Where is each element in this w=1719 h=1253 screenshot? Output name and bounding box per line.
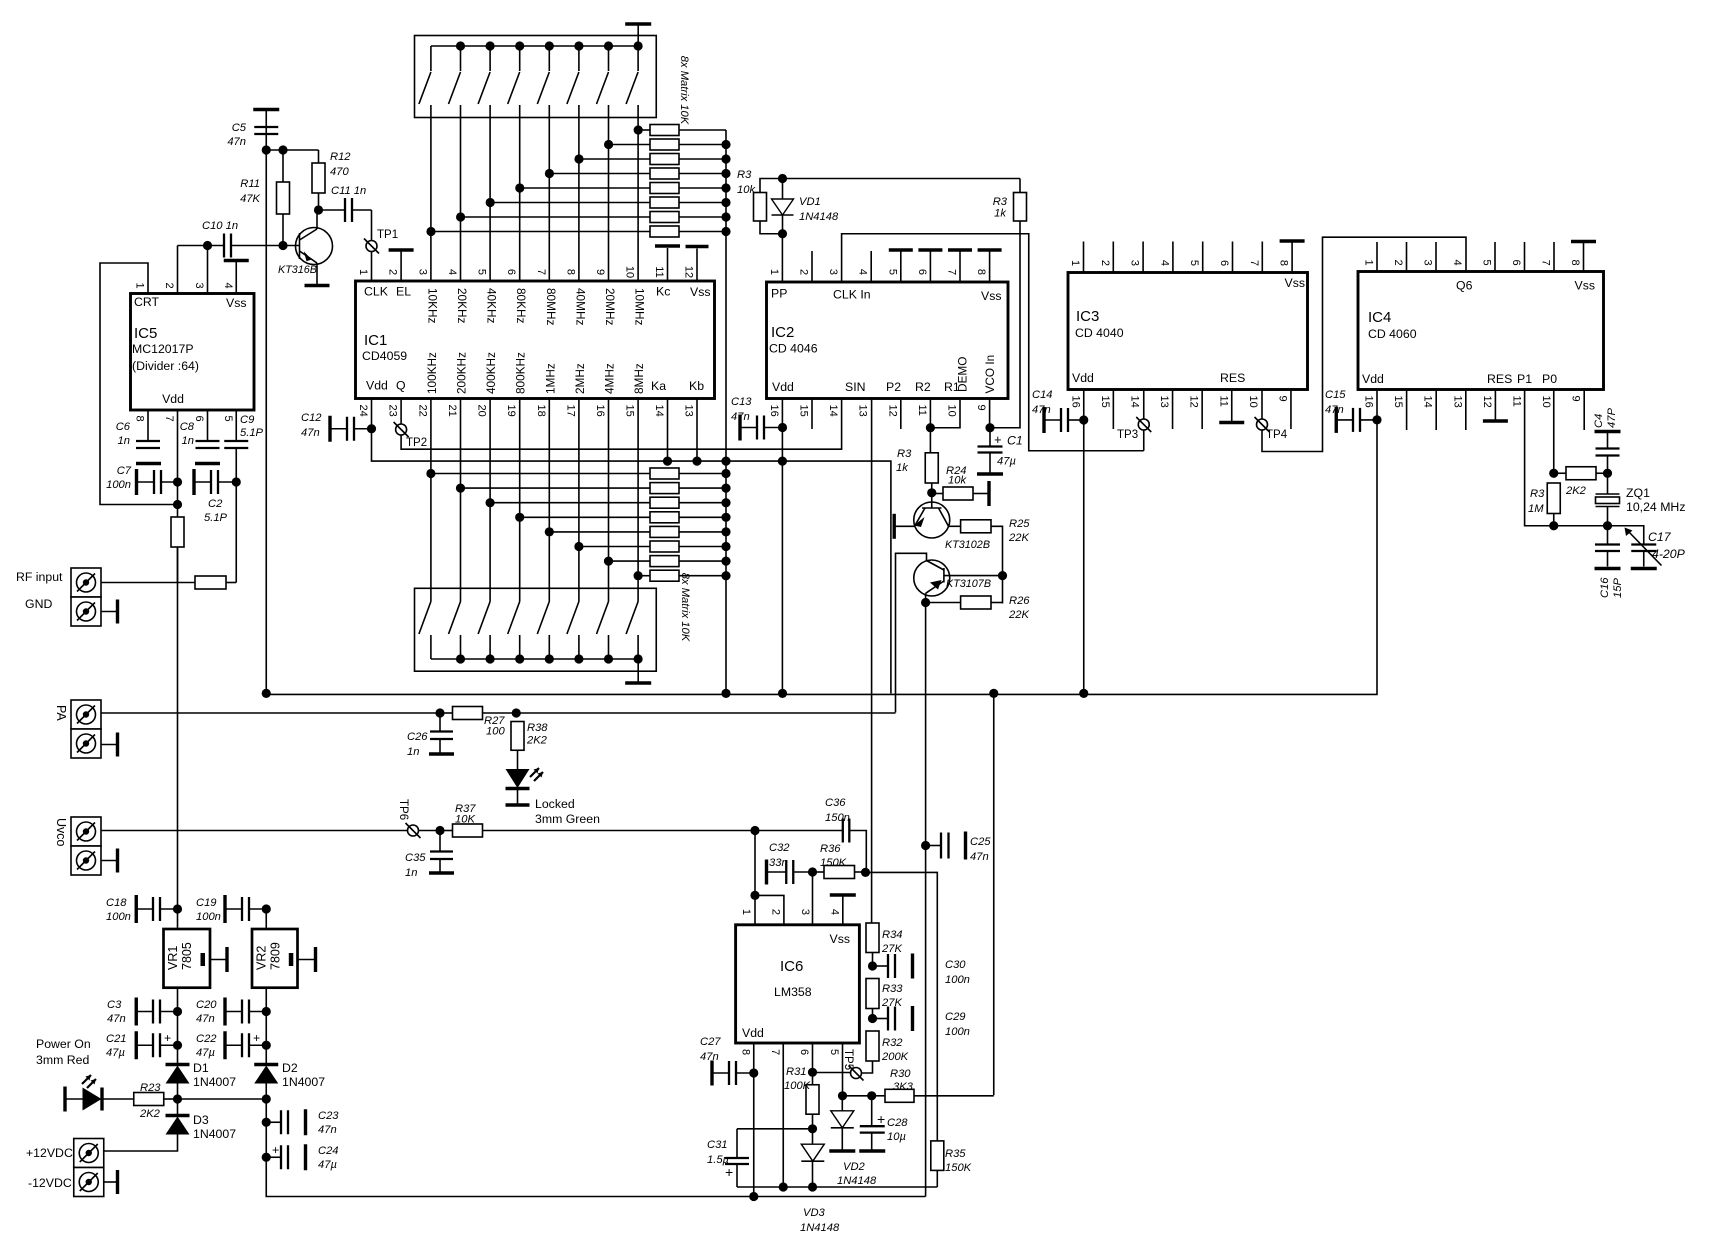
svg-text:VCO In: VCO In: [983, 355, 997, 394]
svg-text:EL: EL: [396, 285, 411, 299]
svg-text:VD3: VD3: [803, 1207, 826, 1219]
svg-text:470: 470: [330, 166, 349, 178]
svg-text:7: 7: [1540, 259, 1552, 265]
svg-text:2MHz: 2MHz: [573, 363, 587, 394]
svg-text:19: 19: [505, 405, 517, 417]
svg-text:100n: 100n: [196, 911, 221, 923]
svg-text:IC4: IC4: [1368, 309, 1391, 326]
svg-text:1k: 1k: [994, 208, 1007, 220]
svg-text:22: 22: [416, 405, 428, 417]
svg-text:GND: GND: [25, 597, 52, 611]
svg-text:150K: 150K: [820, 857, 847, 869]
svg-text:7: 7: [946, 269, 958, 275]
svg-text:13: 13: [1158, 396, 1170, 408]
svg-text:6: 6: [505, 269, 517, 275]
svg-text:3K3: 3K3: [893, 1081, 914, 1093]
svg-text:R36: R36: [820, 843, 841, 855]
svg-text:2: 2: [387, 269, 399, 275]
svg-text:10MHz: 10MHz: [633, 288, 647, 325]
svg-text:PP: PP: [771, 287, 787, 301]
svg-text:10KHz: 10KHz: [425, 288, 439, 324]
svg-text:R3: R3: [737, 169, 752, 181]
svg-text:47n: 47n: [970, 851, 989, 863]
svg-text:4: 4: [1158, 260, 1170, 266]
svg-text:1n: 1n: [407, 746, 419, 758]
svg-text:7: 7: [1248, 260, 1260, 266]
svg-text:Uvco: Uvco: [54, 818, 68, 847]
svg-text:C23: C23: [318, 1110, 339, 1122]
svg-text:C19: C19: [196, 897, 217, 909]
svg-text:3mm Red: 3mm Red: [36, 1053, 89, 1067]
svg-text:47n: 47n: [107, 1013, 126, 1025]
svg-text:C29: C29: [945, 1011, 966, 1023]
svg-text:10k: 10k: [948, 475, 967, 487]
svg-text:R3: R3: [897, 448, 912, 460]
svg-text:R33: R33: [882, 983, 903, 995]
svg-text:+: +: [164, 1031, 171, 1045]
svg-text:9: 9: [1276, 396, 1288, 402]
svg-text:C1: C1: [1007, 434, 1023, 448]
svg-text:Ka: Ka: [651, 379, 666, 393]
svg-text:TP6: TP6: [397, 799, 409, 820]
svg-text:C2: C2: [208, 498, 223, 510]
svg-text:100n: 100n: [106, 479, 131, 491]
svg-text:40MHz: 40MHz: [573, 288, 587, 325]
svg-text:23: 23: [387, 405, 399, 417]
svg-text:11: 11: [916, 405, 928, 416]
svg-text:+: +: [253, 1031, 260, 1045]
svg-text:R25: R25: [1009, 518, 1030, 530]
svg-text:100n: 100n: [945, 1026, 970, 1038]
svg-text:4: 4: [1451, 259, 1463, 265]
svg-text:3: 3: [193, 282, 205, 288]
svg-text:5.1P: 5.1P: [204, 512, 228, 524]
svg-text:C16: C16: [1599, 577, 1611, 598]
svg-text:20: 20: [476, 405, 488, 417]
svg-text:3: 3: [416, 269, 428, 275]
svg-text:1k: 1k: [896, 462, 909, 474]
svg-text:6: 6: [1218, 260, 1230, 266]
svg-text:8: 8: [1278, 260, 1290, 266]
svg-text:47n: 47n: [700, 1051, 719, 1063]
svg-text:Kb: Kb: [689, 379, 704, 393]
svg-text:CD 4060: CD 4060: [1368, 327, 1417, 341]
svg-text:C35: C35: [405, 852, 426, 864]
svg-text:C32: C32: [769, 842, 790, 854]
svg-text:C14: C14: [1032, 389, 1053, 401]
svg-text:PA: PA: [54, 705, 68, 721]
svg-text:C4: C4: [1593, 414, 1605, 428]
svg-text:RF input: RF input: [16, 570, 63, 584]
svg-text:24: 24: [357, 405, 369, 417]
svg-text:VR1: VR1: [166, 946, 180, 970]
svg-text:16: 16: [594, 405, 606, 417]
svg-text:3: 3: [827, 269, 839, 275]
svg-text:1N4007: 1N4007: [282, 1075, 325, 1089]
svg-text:KT316B: KT316B: [278, 264, 317, 276]
svg-text:D2: D2: [282, 1061, 298, 1075]
svg-text:80MHz: 80MHz: [544, 288, 558, 325]
svg-text:150K: 150K: [945, 1162, 972, 1174]
svg-text:14: 14: [1128, 396, 1140, 408]
svg-text:2: 2: [1099, 260, 1111, 266]
svg-text:22K: 22K: [1008, 532, 1029, 544]
svg-text:Power On: Power On: [36, 1037, 91, 1051]
svg-text:R11: R11: [240, 178, 260, 190]
svg-text:12: 12: [683, 266, 695, 278]
svg-text:R3: R3: [1530, 488, 1545, 500]
svg-text:-12VDC: -12VDC: [28, 1176, 72, 1190]
svg-text:C30: C30: [945, 959, 966, 971]
svg-text:12: 12: [1481, 396, 1493, 408]
svg-text:IC2: IC2: [771, 324, 794, 341]
svg-text:2: 2: [769, 909, 781, 915]
svg-text:6: 6: [1510, 259, 1522, 265]
svg-text:1: 1: [134, 282, 146, 288]
svg-text:C10 1n: C10 1n: [202, 220, 238, 232]
svg-text:10: 10: [624, 266, 636, 278]
svg-text:10: 10: [1540, 396, 1552, 408]
svg-text:16: 16: [768, 405, 780, 417]
svg-text:Vdd: Vdd: [742, 1026, 764, 1040]
svg-text:1N4148: 1N4148: [837, 1175, 877, 1187]
svg-text:47n: 47n: [227, 136, 246, 148]
svg-text:C24: C24: [318, 1145, 339, 1157]
svg-text:20MHz: 20MHz: [603, 288, 617, 325]
svg-text:8: 8: [564, 269, 576, 275]
svg-text:CD 4040: CD 4040: [1075, 326, 1124, 340]
svg-text:16: 16: [1363, 396, 1375, 408]
svg-text:47n: 47n: [318, 1124, 337, 1136]
svg-text:P0: P0: [1542, 372, 1557, 386]
svg-text:1N4007: 1N4007: [193, 1127, 236, 1141]
svg-text:5: 5: [886, 269, 898, 275]
svg-text:MC12017P: MC12017P: [132, 342, 194, 356]
svg-text:Q: Q: [396, 379, 406, 393]
svg-text:IC3: IC3: [1076, 308, 1099, 325]
svg-text:20KHz: 20KHz: [455, 288, 469, 324]
svg-text:IC6: IC6: [780, 958, 803, 975]
svg-text:R31: R31: [786, 1066, 807, 1078]
svg-text:C28: C28: [887, 1117, 908, 1129]
svg-text:7809: 7809: [269, 942, 283, 970]
svg-text:C36: C36: [825, 797, 846, 809]
svg-text:11: 11: [1217, 396, 1229, 407]
svg-text:1: 1: [1069, 260, 1081, 266]
svg-text:1: 1: [357, 269, 369, 275]
svg-text:5: 5: [1481, 259, 1493, 265]
svg-text:C12: C12: [301, 412, 322, 424]
svg-text:Vdd: Vdd: [1072, 371, 1094, 385]
svg-text:47n: 47n: [731, 411, 750, 423]
svg-text:CD4059: CD4059: [362, 349, 407, 363]
svg-text:D1: D1: [193, 1061, 209, 1075]
svg-text:+: +: [272, 1143, 279, 1157]
svg-text:100n: 100n: [106, 911, 131, 923]
svg-text:15: 15: [1392, 396, 1404, 408]
svg-text:12: 12: [886, 405, 898, 417]
svg-text:P1: P1: [1517, 372, 1532, 386]
svg-text:R12: R12: [330, 151, 351, 163]
svg-text:8: 8: [975, 269, 987, 275]
svg-text:4: 4: [857, 269, 869, 275]
svg-text:C5: C5: [232, 122, 247, 134]
svg-text:6: 6: [798, 1049, 810, 1055]
svg-text:C26: C26: [407, 731, 428, 743]
svg-text:7: 7: [535, 269, 547, 275]
svg-text:RES: RES: [1220, 371, 1245, 385]
svg-text:1n: 1n: [182, 435, 194, 447]
svg-text:Vss: Vss: [226, 296, 247, 310]
svg-text:10: 10: [1247, 396, 1259, 408]
svg-text:C25: C25: [970, 836, 991, 848]
svg-text:TP2: TP2: [406, 437, 427, 449]
svg-text:27K: 27K: [881, 943, 902, 955]
svg-text:47K: 47K: [240, 193, 260, 205]
svg-text:8: 8: [739, 1049, 751, 1055]
svg-text:15: 15: [624, 405, 636, 417]
svg-text:7: 7: [163, 416, 175, 422]
svg-text:100K: 100K: [784, 1080, 811, 1092]
svg-text:1: 1: [1363, 259, 1375, 265]
svg-text:P2: P2: [886, 380, 901, 394]
svg-text:47µ: 47µ: [196, 1047, 215, 1059]
svg-text:1N4007: 1N4007: [193, 1075, 236, 1089]
svg-text:2: 2: [798, 269, 810, 275]
svg-text:Vss: Vss: [830, 932, 851, 946]
svg-text:80KHz: 80KHz: [514, 288, 528, 324]
svg-text:1n: 1n: [405, 867, 417, 879]
svg-text:+: +: [994, 432, 1002, 447]
svg-text:13: 13: [857, 405, 869, 417]
svg-text:8x Matrix 10K: 8x Matrix 10K: [678, 56, 690, 125]
svg-text:Vdd: Vdd: [162, 392, 184, 406]
svg-text:C22: C22: [196, 1033, 217, 1045]
svg-text:5: 5: [1188, 260, 1200, 266]
svg-text:1M: 1M: [1528, 503, 1544, 515]
svg-text:D3: D3: [193, 1113, 209, 1127]
svg-text:5.1P: 5.1P: [240, 427, 264, 439]
svg-text:150n: 150n: [825, 812, 850, 824]
svg-text:47n: 47n: [1032, 404, 1051, 416]
svg-text:15: 15: [798, 405, 810, 417]
svg-text:R23: R23: [140, 1082, 161, 1094]
svg-text:Vdd: Vdd: [772, 380, 794, 394]
svg-text:2K2: 2K2: [1565, 485, 1587, 497]
svg-text:13: 13: [683, 405, 695, 417]
svg-text:3: 3: [1129, 260, 1141, 266]
svg-text:VD2: VD2: [843, 1161, 866, 1173]
svg-text:14: 14: [1422, 396, 1434, 408]
svg-text:3mm Green: 3mm Green: [535, 812, 600, 826]
svg-text:1N4148: 1N4148: [800, 1222, 840, 1234]
svg-text:1MHz: 1MHz: [543, 363, 557, 394]
svg-text:200KHz: 200KHz: [455, 352, 469, 394]
svg-text:RES: RES: [1487, 372, 1512, 386]
svg-text:8x Matrix 10K: 8x Matrix 10K: [679, 573, 691, 642]
svg-text:VR2: VR2: [255, 946, 269, 970]
svg-text:ZQ1: ZQ1: [1626, 486, 1650, 500]
svg-text:VD1: VD1: [799, 196, 821, 208]
svg-text:14: 14: [827, 405, 839, 417]
svg-text:11: 11: [1511, 396, 1523, 407]
svg-text:R38: R38: [527, 722, 548, 734]
svg-text:4: 4: [222, 282, 234, 288]
svg-text:2: 2: [163, 282, 175, 288]
svg-text:5: 5: [476, 269, 488, 275]
svg-text:10K: 10K: [455, 814, 475, 826]
svg-text:4: 4: [828, 909, 840, 915]
svg-text:R3: R3: [993, 196, 1008, 208]
svg-text:R35: R35: [945, 1148, 966, 1160]
svg-text:800KHz: 800KHz: [514, 352, 528, 394]
svg-text:R30: R30: [890, 1068, 911, 1080]
svg-text:6: 6: [916, 269, 928, 275]
svg-text:10µ: 10µ: [887, 1131, 906, 1143]
svg-text:Vss: Vss: [690, 285, 711, 299]
svg-text:47µ: 47µ: [997, 456, 1016, 468]
svg-text:10k: 10k: [737, 184, 756, 196]
svg-text:C3: C3: [107, 999, 122, 1011]
svg-text:C15: C15: [1325, 389, 1346, 401]
svg-text:Q6: Q6: [1456, 279, 1473, 293]
svg-text:C27: C27: [700, 1036, 721, 1048]
svg-text:9: 9: [1570, 396, 1582, 402]
svg-text:C11 1n: C11 1n: [331, 185, 366, 197]
svg-text:8: 8: [134, 416, 146, 422]
svg-text:R26: R26: [1009, 595, 1030, 607]
svg-text:6: 6: [193, 416, 205, 422]
svg-text:47n: 47n: [1325, 404, 1344, 416]
svg-text:33n: 33n: [769, 857, 788, 869]
svg-text:3: 3: [799, 909, 811, 915]
svg-text:C21: C21: [106, 1033, 127, 1045]
svg-text:13: 13: [1451, 396, 1463, 408]
svg-text:27K: 27K: [881, 997, 902, 1009]
svg-text:C9: C9: [240, 414, 254, 426]
svg-text:Vss: Vss: [1575, 279, 1596, 293]
svg-text:5: 5: [222, 416, 234, 422]
svg-text:CLK: CLK: [364, 285, 389, 299]
svg-text:2K2: 2K2: [139, 1108, 161, 1120]
svg-text:+: +: [725, 1164, 733, 1180]
svg-text:Vdd: Vdd: [366, 379, 388, 393]
svg-text:11: 11: [653, 266, 665, 277]
svg-text:100KHz: 100KHz: [425, 352, 439, 394]
svg-text:R2: R2: [915, 380, 931, 394]
svg-text:C13: C13: [731, 396, 752, 408]
svg-text:47µ: 47µ: [318, 1159, 337, 1171]
svg-text:200K: 200K: [881, 1051, 909, 1063]
svg-text:16: 16: [1069, 396, 1081, 408]
svg-text:TP3: TP3: [1117, 429, 1138, 441]
svg-text:4: 4: [446, 269, 458, 275]
svg-text:3: 3: [1422, 259, 1434, 265]
svg-text:C8: C8: [180, 421, 195, 433]
svg-text:5: 5: [828, 1049, 840, 1055]
svg-text:C31: C31: [707, 1139, 728, 1151]
svg-text:(Divider :64): (Divider :64): [132, 359, 199, 373]
svg-text:4MHz: 4MHz: [603, 363, 617, 394]
svg-text:1N4148: 1N4148: [799, 211, 839, 223]
svg-text:C7: C7: [117, 465, 132, 477]
svg-text:100: 100: [486, 726, 505, 738]
svg-text:+: +: [877, 1111, 885, 1127]
svg-text:Vss: Vss: [981, 289, 1002, 303]
svg-text:C6: C6: [116, 421, 131, 433]
svg-text:47µ: 47µ: [106, 1047, 125, 1059]
svg-text:SIN: SIN: [845, 380, 866, 394]
svg-text:C18: C18: [106, 897, 127, 909]
svg-text:8: 8: [1569, 259, 1581, 265]
svg-text:+12VDC: +12VDC: [26, 1146, 73, 1160]
svg-text:12: 12: [1188, 396, 1200, 408]
svg-text:IC5: IC5: [134, 325, 157, 342]
svg-text:2K2: 2K2: [526, 735, 548, 747]
svg-text:15P: 15P: [1612, 578, 1624, 598]
svg-text:8MHz: 8MHz: [632, 363, 646, 394]
svg-text:9: 9: [975, 405, 987, 411]
svg-text:7805: 7805: [180, 942, 194, 970]
svg-text:400KHz: 400KHz: [484, 352, 498, 394]
svg-text:17: 17: [564, 405, 576, 417]
svg-text:47n: 47n: [196, 1013, 215, 1025]
svg-text:Kc: Kc: [656, 285, 670, 299]
svg-text:47n: 47n: [301, 427, 320, 439]
svg-text:10,24 MHz: 10,24 MHz: [1626, 500, 1685, 514]
svg-text:14: 14: [653, 405, 665, 417]
svg-text:C17: C17: [1648, 530, 1672, 544]
svg-text:KT3102B: KT3102B: [945, 539, 990, 551]
svg-text:1: 1: [768, 269, 780, 275]
svg-text:40KHz: 40KHz: [485, 288, 499, 324]
svg-text:IC1: IC1: [364, 332, 387, 349]
svg-text:LM358: LM358: [774, 985, 812, 999]
svg-text:TP5: TP5: [842, 1049, 854, 1070]
svg-text:9: 9: [594, 269, 606, 275]
svg-text:47P: 47P: [1606, 408, 1618, 428]
svg-text:C20: C20: [196, 999, 217, 1011]
svg-text:2: 2: [1392, 259, 1404, 265]
svg-text:DEMO: DEMO: [956, 357, 970, 392]
svg-text:22K: 22K: [1008, 609, 1029, 621]
svg-text:CD 4046: CD 4046: [769, 342, 818, 356]
svg-text:21: 21: [446, 405, 458, 417]
svg-text:Locked: Locked: [535, 797, 575, 811]
svg-text:Vdd: Vdd: [1362, 372, 1384, 386]
svg-text:10: 10: [946, 405, 958, 417]
svg-text:R34: R34: [882, 929, 903, 941]
svg-text:TP4: TP4: [1266, 429, 1288, 441]
svg-text:TP1: TP1: [377, 229, 398, 241]
svg-text:1: 1: [740, 909, 752, 915]
svg-text:7: 7: [769, 1049, 781, 1055]
svg-text:CLK In: CLK In: [833, 288, 871, 302]
svg-text:4-20P: 4-20P: [1652, 547, 1686, 561]
svg-text:18: 18: [535, 405, 547, 417]
svg-text:100n: 100n: [945, 974, 970, 986]
svg-text:Vss: Vss: [1285, 276, 1306, 290]
svg-text:R32: R32: [882, 1037, 903, 1049]
svg-text:15: 15: [1099, 396, 1111, 408]
svg-text:CRT: CRT: [134, 295, 160, 309]
svg-text:KT3107B: KT3107B: [946, 578, 991, 590]
svg-text:1n: 1n: [118, 435, 130, 447]
